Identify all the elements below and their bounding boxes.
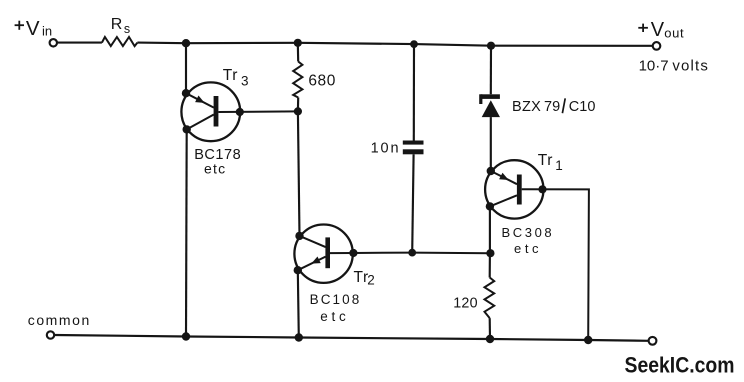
svg-text:common: common xyxy=(28,312,91,328)
svg-text:Tr: Tr xyxy=(223,67,238,84)
svg-text:BC308: BC308 xyxy=(502,225,555,240)
wire capacitor down to Tr2 base line xyxy=(412,154,413,252)
svg-text:R: R xyxy=(111,16,123,33)
wire 680 to base node xyxy=(297,98,299,112)
svg-text:in: in xyxy=(42,23,52,38)
node junction bottom x588 xyxy=(584,336,592,344)
wire Tr2 base to Tr1 collector line xyxy=(330,252,490,255)
svg-text:BZX: BZX xyxy=(512,99,541,115)
svg-text:10n: 10n xyxy=(371,141,401,157)
node 680/Tr3-base junction xyxy=(294,107,302,115)
wire top rail down to zener xyxy=(490,46,492,95)
wire Tr1 base right then down to rail xyxy=(522,189,589,340)
wire Tr2 emitter down to common rail xyxy=(298,270,299,337)
svg-text:s: s xyxy=(124,22,130,36)
node capacitor bottom junction xyxy=(408,249,416,257)
wire top rail left segment xyxy=(58,42,102,44)
svg-text:79: 79 xyxy=(544,99,560,115)
transistor Tr2 BC108 (NPN) xyxy=(294,225,353,283)
node Tr3 base circle edge xyxy=(236,108,244,116)
svg-text:etc: etc xyxy=(320,309,349,324)
transistor Tr3 BC178 (PNP) xyxy=(181,82,240,141)
svg-text:10·7: 10·7 xyxy=(639,57,669,74)
svg-text:2: 2 xyxy=(367,273,375,288)
node Tr1 base circle edge xyxy=(538,185,546,193)
node junction top rail x298 xyxy=(294,39,302,47)
wire top rail main xyxy=(137,43,652,46)
node junction top rail x414 xyxy=(410,40,418,48)
svg-text:C10: C10 xyxy=(569,99,596,115)
wire Tr3 base to 680 node xyxy=(218,110,297,113)
svg-text:volts: volts xyxy=(672,57,709,74)
svg-text:SeekIC.com: SeekIC.com xyxy=(625,352,735,377)
svg-text:etc: etc xyxy=(514,241,542,256)
svg-text:120: 120 xyxy=(453,296,478,312)
wire bottom common rail xyxy=(55,335,649,341)
wire Tr1 collector down to 120 xyxy=(489,206,491,277)
svg-text:V: V xyxy=(26,17,40,40)
node Tr1 collector junction xyxy=(486,249,494,257)
svg-text:Tr: Tr xyxy=(538,152,553,169)
terminal +Vin xyxy=(50,39,57,46)
node junction bottom x299 xyxy=(295,333,303,341)
svg-text:680: 680 xyxy=(308,72,336,89)
svg-text:V: V xyxy=(651,19,665,41)
capacitor 10n xyxy=(403,141,424,145)
terminal output common xyxy=(649,337,657,345)
diode zener BZX79/C10 xyxy=(479,94,500,117)
wire zener to Tr1 emitter xyxy=(490,117,492,171)
svg-text:etc: etc xyxy=(204,161,226,177)
wire 120 down to rail xyxy=(489,318,491,339)
label +Vout xyxy=(638,27,648,29)
resistor 680 xyxy=(293,62,302,98)
node Tr2 base circle edge xyxy=(349,249,357,257)
node junction bottom x186 xyxy=(182,332,190,340)
resistor R_s xyxy=(102,37,137,46)
terminal common xyxy=(47,331,54,338)
node junction top rail x491 xyxy=(487,42,495,50)
svg-text:3: 3 xyxy=(241,73,249,88)
wire top rail down to 680 xyxy=(297,43,300,62)
wire junction down to Tr2 collector xyxy=(298,111,300,235)
wire Vin rail down to Tr3 emitter xyxy=(185,43,187,93)
svg-text:out: out xyxy=(664,26,684,41)
node junction top rail x186 xyxy=(182,39,190,47)
wire top rail down to capacitor xyxy=(413,44,415,140)
terminal +Vout xyxy=(653,42,661,50)
node junction bottom x490 xyxy=(486,335,494,343)
resistor 120 xyxy=(485,278,495,319)
label +Vin xyxy=(15,24,24,26)
svg-text:BC108: BC108 xyxy=(310,292,362,307)
svg-text:1: 1 xyxy=(555,158,563,173)
wire Tr3 collector down to common rail xyxy=(185,129,188,336)
transistor Tr1 BC308 (PNP) xyxy=(485,160,543,218)
